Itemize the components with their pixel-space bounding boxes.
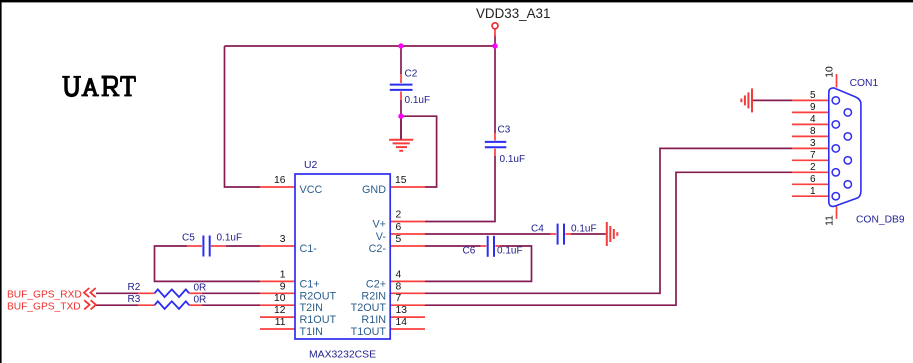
svg-text:BUF_GPS_TXD: BUF_GPS_TXD [7,302,81,313]
svg-text:R2OUT: R2OUT [300,290,337,302]
svg-text:VDD33_A31: VDD33_A31 [476,6,550,21]
svg-text:GND: GND [362,184,386,196]
svg-text:C6: C6 [463,246,476,257]
svg-text:V+: V+ [372,219,386,231]
svg-text:C2-: C2- [369,243,387,255]
svg-text:R2: R2 [128,282,141,293]
svg-text:0.1uF: 0.1uF [500,154,526,165]
svg-text:VCC: VCC [300,184,323,196]
svg-text:8: 8 [396,281,402,292]
svg-text:11: 11 [825,215,836,226]
svg-text:7: 7 [810,150,816,161]
svg-text:1: 1 [280,269,286,280]
svg-text:CON_DB9: CON_DB9 [856,214,905,225]
svg-text:2: 2 [810,162,816,173]
svg-text:0R: 0R [194,294,207,305]
svg-text:C1-: C1- [300,243,318,255]
svg-text:3: 3 [280,234,286,245]
svg-text:12: 12 [274,305,286,316]
svg-text:8: 8 [810,126,816,137]
svg-text:10: 10 [825,66,836,78]
svg-text:T1OUT: T1OUT [351,326,387,338]
svg-text:C2: C2 [405,69,418,80]
svg-text:9: 9 [810,102,816,113]
svg-text:C2+: C2+ [366,278,386,290]
svg-text:5: 5 [396,234,402,245]
svg-text:1: 1 [810,186,816,197]
svg-text:14: 14 [396,317,408,328]
svg-text:11: 11 [275,317,286,328]
svg-text:V-: V- [376,231,387,243]
svg-text:9: 9 [280,281,286,292]
svg-text:T1IN: T1IN [300,326,323,338]
svg-text:0R: 0R [194,282,207,293]
svg-text:T2OUT: T2OUT [351,302,387,314]
svg-text:6: 6 [810,174,816,185]
svg-text:0.1uF: 0.1uF [405,95,431,106]
svg-text:U2: U2 [304,160,318,171]
svg-text:C3: C3 [498,125,511,136]
svg-text:15: 15 [395,175,407,186]
svg-text:MAX3232CSE: MAX3232CSE [309,350,376,361]
svg-text:10: 10 [274,293,286,304]
svg-text:C5: C5 [182,233,195,244]
svg-text:R1OUT: R1OUT [300,314,337,326]
svg-text:2: 2 [396,210,402,221]
svg-text:5: 5 [810,90,816,101]
svg-text:BUF_GPS_RXD: BUF_GPS_RXD [7,290,82,301]
svg-text:R2IN: R2IN [361,290,386,302]
svg-text:16: 16 [274,175,286,186]
svg-text:C4: C4 [531,224,544,235]
svg-text:4: 4 [810,114,816,125]
svg-text:R3: R3 [128,294,141,305]
svg-text:4: 4 [396,269,402,280]
svg-text:T2IN: T2IN [300,302,323,314]
svg-text:C1+: C1+ [300,278,320,290]
svg-text:CON1: CON1 [850,78,879,89]
svg-text:13: 13 [396,305,408,316]
svg-text:7: 7 [396,293,402,304]
svg-text:0.1uF: 0.1uF [571,224,597,235]
svg-text:0.1uF: 0.1uF [497,246,523,257]
svg-text:6: 6 [396,222,402,233]
svg-text:R1IN: R1IN [361,314,386,326]
svg-text:0.1uF: 0.1uF [217,233,243,244]
svg-text:3: 3 [810,138,816,149]
